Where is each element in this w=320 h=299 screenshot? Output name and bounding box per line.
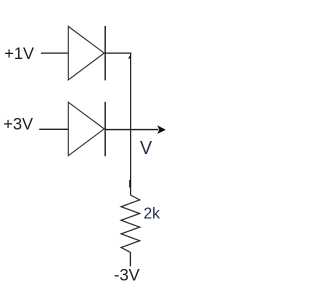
wire resistor bottom lead: [129, 252, 131, 266]
diode D1 cathode bar: [104, 26, 106, 81]
diode D2 triangle: [68, 102, 104, 156]
diode D1 triangle: [68, 26, 104, 80]
arrowhead of output V pointing right: [157, 125, 166, 134]
svg-text:+1V: +1V: [4, 45, 34, 63]
wire D1 cathode to top corner: [105, 52, 131, 54]
arrowhead pointing down on bus above resistor: [129, 179, 131, 188]
wire vertical bus from corner down to resistor: [130, 53, 132, 195]
wire output from D2 cathode through bus junction: [105, 129, 158, 131]
svg-text:V: V: [140, 138, 152, 158]
diode D2 cathode bar: [104, 102, 106, 156]
svg-text:2k: 2k: [144, 206, 161, 223]
wire +1V to D1 anode: [41, 52, 68, 54]
svg-text:-3V: -3V: [114, 267, 140, 285]
svg-text:+3V: +3V: [3, 116, 33, 134]
resistor R1 zigzag body: [121, 195, 140, 252]
wire +3V to D2 anode: [39, 128, 68, 130]
arrowhead pointing up at top corner of bus: [128, 54, 131, 59]
